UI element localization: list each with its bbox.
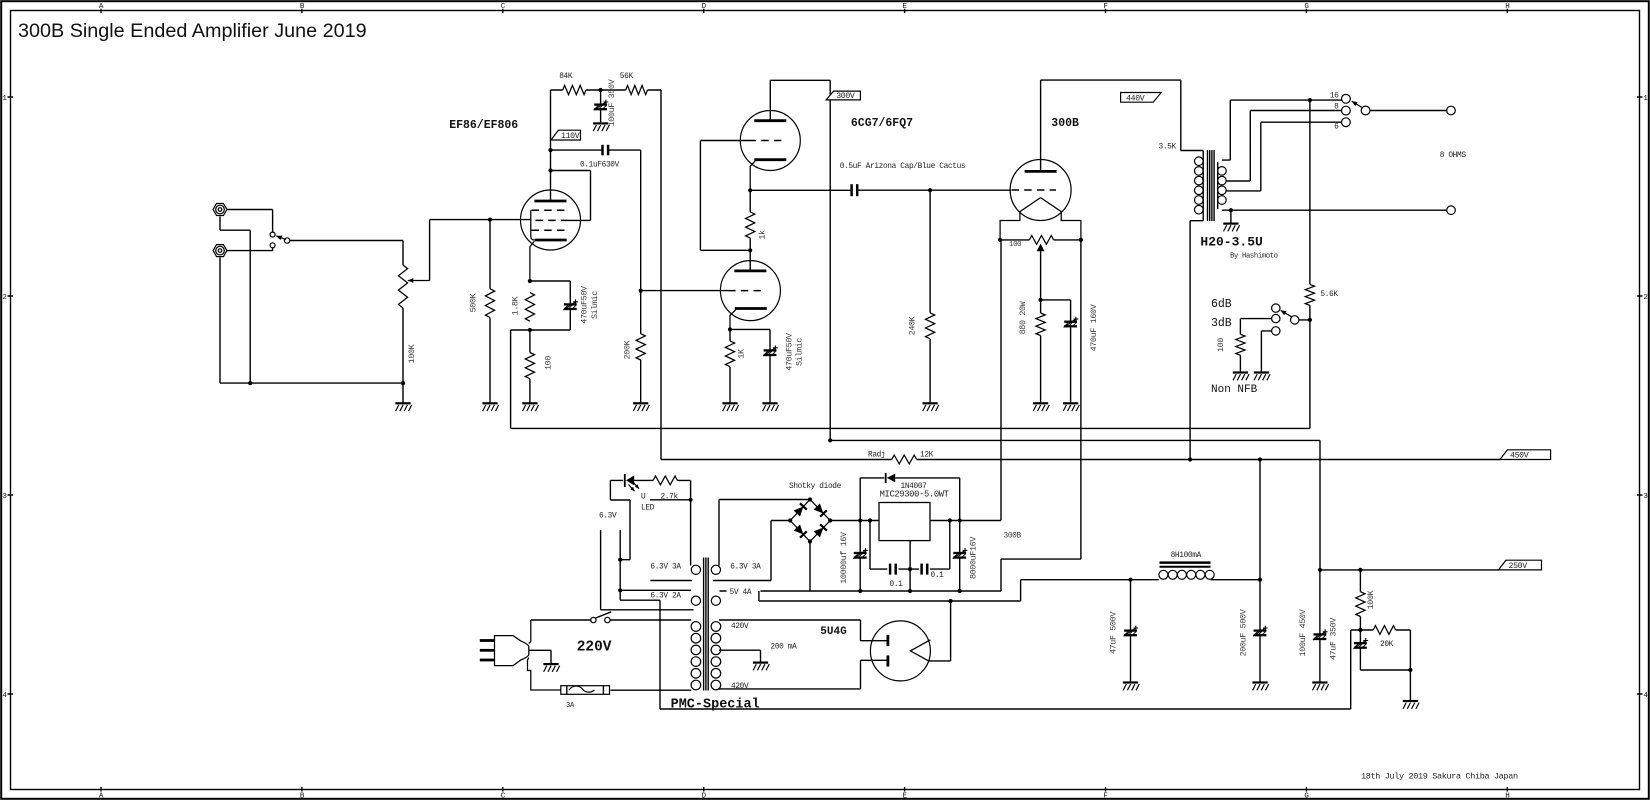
svg-text:U: U — [641, 493, 646, 501]
svg-text:420V: 420V — [731, 623, 749, 631]
svg-text:5V 4A: 5V 4A — [730, 589, 752, 597]
svg-text:2.7k: 2.7k — [661, 493, 679, 501]
svg-text:Radj: Radj — [868, 452, 885, 460]
svg-text:F: F — [1103, 3, 1107, 11]
svg-text:1k: 1k — [758, 230, 768, 240]
svg-text:84K: 84K — [559, 73, 573, 81]
svg-text:110V: 110V — [561, 132, 580, 141]
svg-text:8 OHMS: 8 OHMS — [1440, 152, 1467, 160]
svg-text:H: H — [1505, 3, 1509, 11]
svg-text:LED: LED — [641, 505, 655, 513]
svg-text:6.3V 3A: 6.3V 3A — [730, 563, 761, 571]
svg-text:8H100mA: 8H100mA — [1171, 552, 1202, 560]
svg-text:470uF 160V: 470uF 160V — [1089, 304, 1099, 351]
svg-text:6dB: 6dB — [1211, 298, 1232, 311]
svg-text:Silmic: Silmic — [795, 338, 805, 366]
svg-text:20K: 20K — [1380, 641, 1394, 649]
svg-text:0.1: 0.1 — [890, 581, 904, 589]
svg-text:450V: 450V — [1510, 452, 1529, 461]
svg-text:6CG7/6FQ7: 6CG7/6FQ7 — [851, 117, 913, 130]
svg-text:440V: 440V — [1126, 95, 1145, 104]
svg-text:250V: 250V — [1509, 562, 1528, 571]
svg-text:500K: 500K — [468, 292, 478, 312]
svg-text:300V: 300V — [836, 92, 855, 101]
svg-text:8000uF16V: 8000uF16V — [968, 537, 978, 579]
svg-text:PMC-Special: PMC-Special — [671, 697, 760, 712]
svg-text:240K: 240K — [907, 315, 917, 335]
svg-text:0.5uF Arizona Cap/Blue Cactus: 0.5uF Arizona Cap/Blue Cactus — [840, 163, 966, 171]
svg-text:200uF 500V: 200uF 500V — [1239, 609, 1249, 656]
svg-text:300B: 300B — [1004, 533, 1022, 541]
svg-text:100: 100 — [543, 356, 553, 370]
svg-text:6.3V: 6.3V — [599, 513, 617, 521]
svg-text:100uF 450V: 100uF 450V — [1298, 609, 1308, 656]
svg-text:300B Single Ended Amplifier J: 300B Single Ended Amplifier June 2019 — [18, 20, 367, 42]
svg-text:H: H — [1505, 792, 1509, 800]
svg-text:47uF 500V: 47uF 500V — [1109, 612, 1119, 654]
svg-text:1K: 1K — [737, 348, 747, 359]
svg-text:H20-3.5U: H20-3.5U — [1200, 235, 1262, 250]
svg-text:880 20W: 880 20W — [1018, 300, 1028, 334]
svg-text:470uF50V: 470uF50V — [784, 333, 794, 371]
svg-text:F: F — [1103, 792, 1107, 800]
svg-text:420V: 420V — [731, 683, 749, 691]
svg-text:2: 2 — [2, 294, 6, 302]
svg-text:200 mA: 200 mA — [771, 644, 798, 652]
svg-text:220V: 220V — [577, 640, 612, 656]
svg-text:16: 16 — [1330, 93, 1339, 101]
svg-text:0.1uF630V: 0.1uF630V — [580, 162, 620, 170]
svg-text:EF86/EF806: EF86/EF806 — [449, 119, 518, 132]
svg-text:3A: 3A — [566, 702, 575, 710]
svg-text:2: 2 — [1643, 294, 1647, 302]
svg-text:10000uf 16V: 10000uf 16V — [839, 532, 849, 584]
svg-text:3dB: 3dB — [1211, 317, 1232, 330]
svg-text:Non NFB: Non NFB — [1211, 384, 1258, 396]
svg-text:0.1: 0.1 — [931, 572, 945, 580]
svg-text:6.3V 2A: 6.3V 2A — [650, 592, 681, 600]
svg-text:By Hashimoto: By Hashimoto — [1230, 253, 1278, 261]
svg-text:100K: 100K — [1366, 589, 1376, 609]
svg-text:100: 100 — [1009, 241, 1021, 249]
svg-text:6: 6 — [1334, 123, 1339, 131]
svg-text:47uF 350V: 47uF 350V — [1329, 618, 1339, 660]
svg-text:6.3V 3A: 6.3V 3A — [650, 563, 681, 571]
svg-text:Silmic: Silmic — [590, 291, 600, 319]
svg-text:Shotky diode: Shotky diode — [789, 483, 842, 491]
svg-text:8: 8 — [1334, 104, 1339, 112]
svg-text:300B: 300B — [1051, 117, 1079, 130]
svg-text:12K: 12K — [920, 452, 934, 460]
svg-text:100: 100 — [1216, 338, 1226, 352]
svg-text:470uF50V: 470uF50V — [580, 286, 590, 324]
svg-text:3.5K: 3.5K — [1159, 143, 1177, 151]
svg-text:1.8K: 1.8K — [511, 295, 521, 315]
svg-text:18th July 2019 Sakura Chiba Ja: 18th July 2019 Sakura Chiba Japan — [1361, 772, 1518, 782]
svg-text:200K: 200K — [622, 339, 632, 359]
svg-text:5.6K: 5.6K — [1320, 291, 1338, 299]
svg-text:100uF 350V: 100uF 350V — [607, 79, 617, 126]
svg-text:5U4G: 5U4G — [820, 626, 847, 638]
svg-text:56K: 56K — [620, 73, 634, 81]
svg-text:MIC29300-5.0WT: MIC29300-5.0WT — [880, 490, 949, 500]
svg-text:100K: 100K — [407, 343, 417, 363]
